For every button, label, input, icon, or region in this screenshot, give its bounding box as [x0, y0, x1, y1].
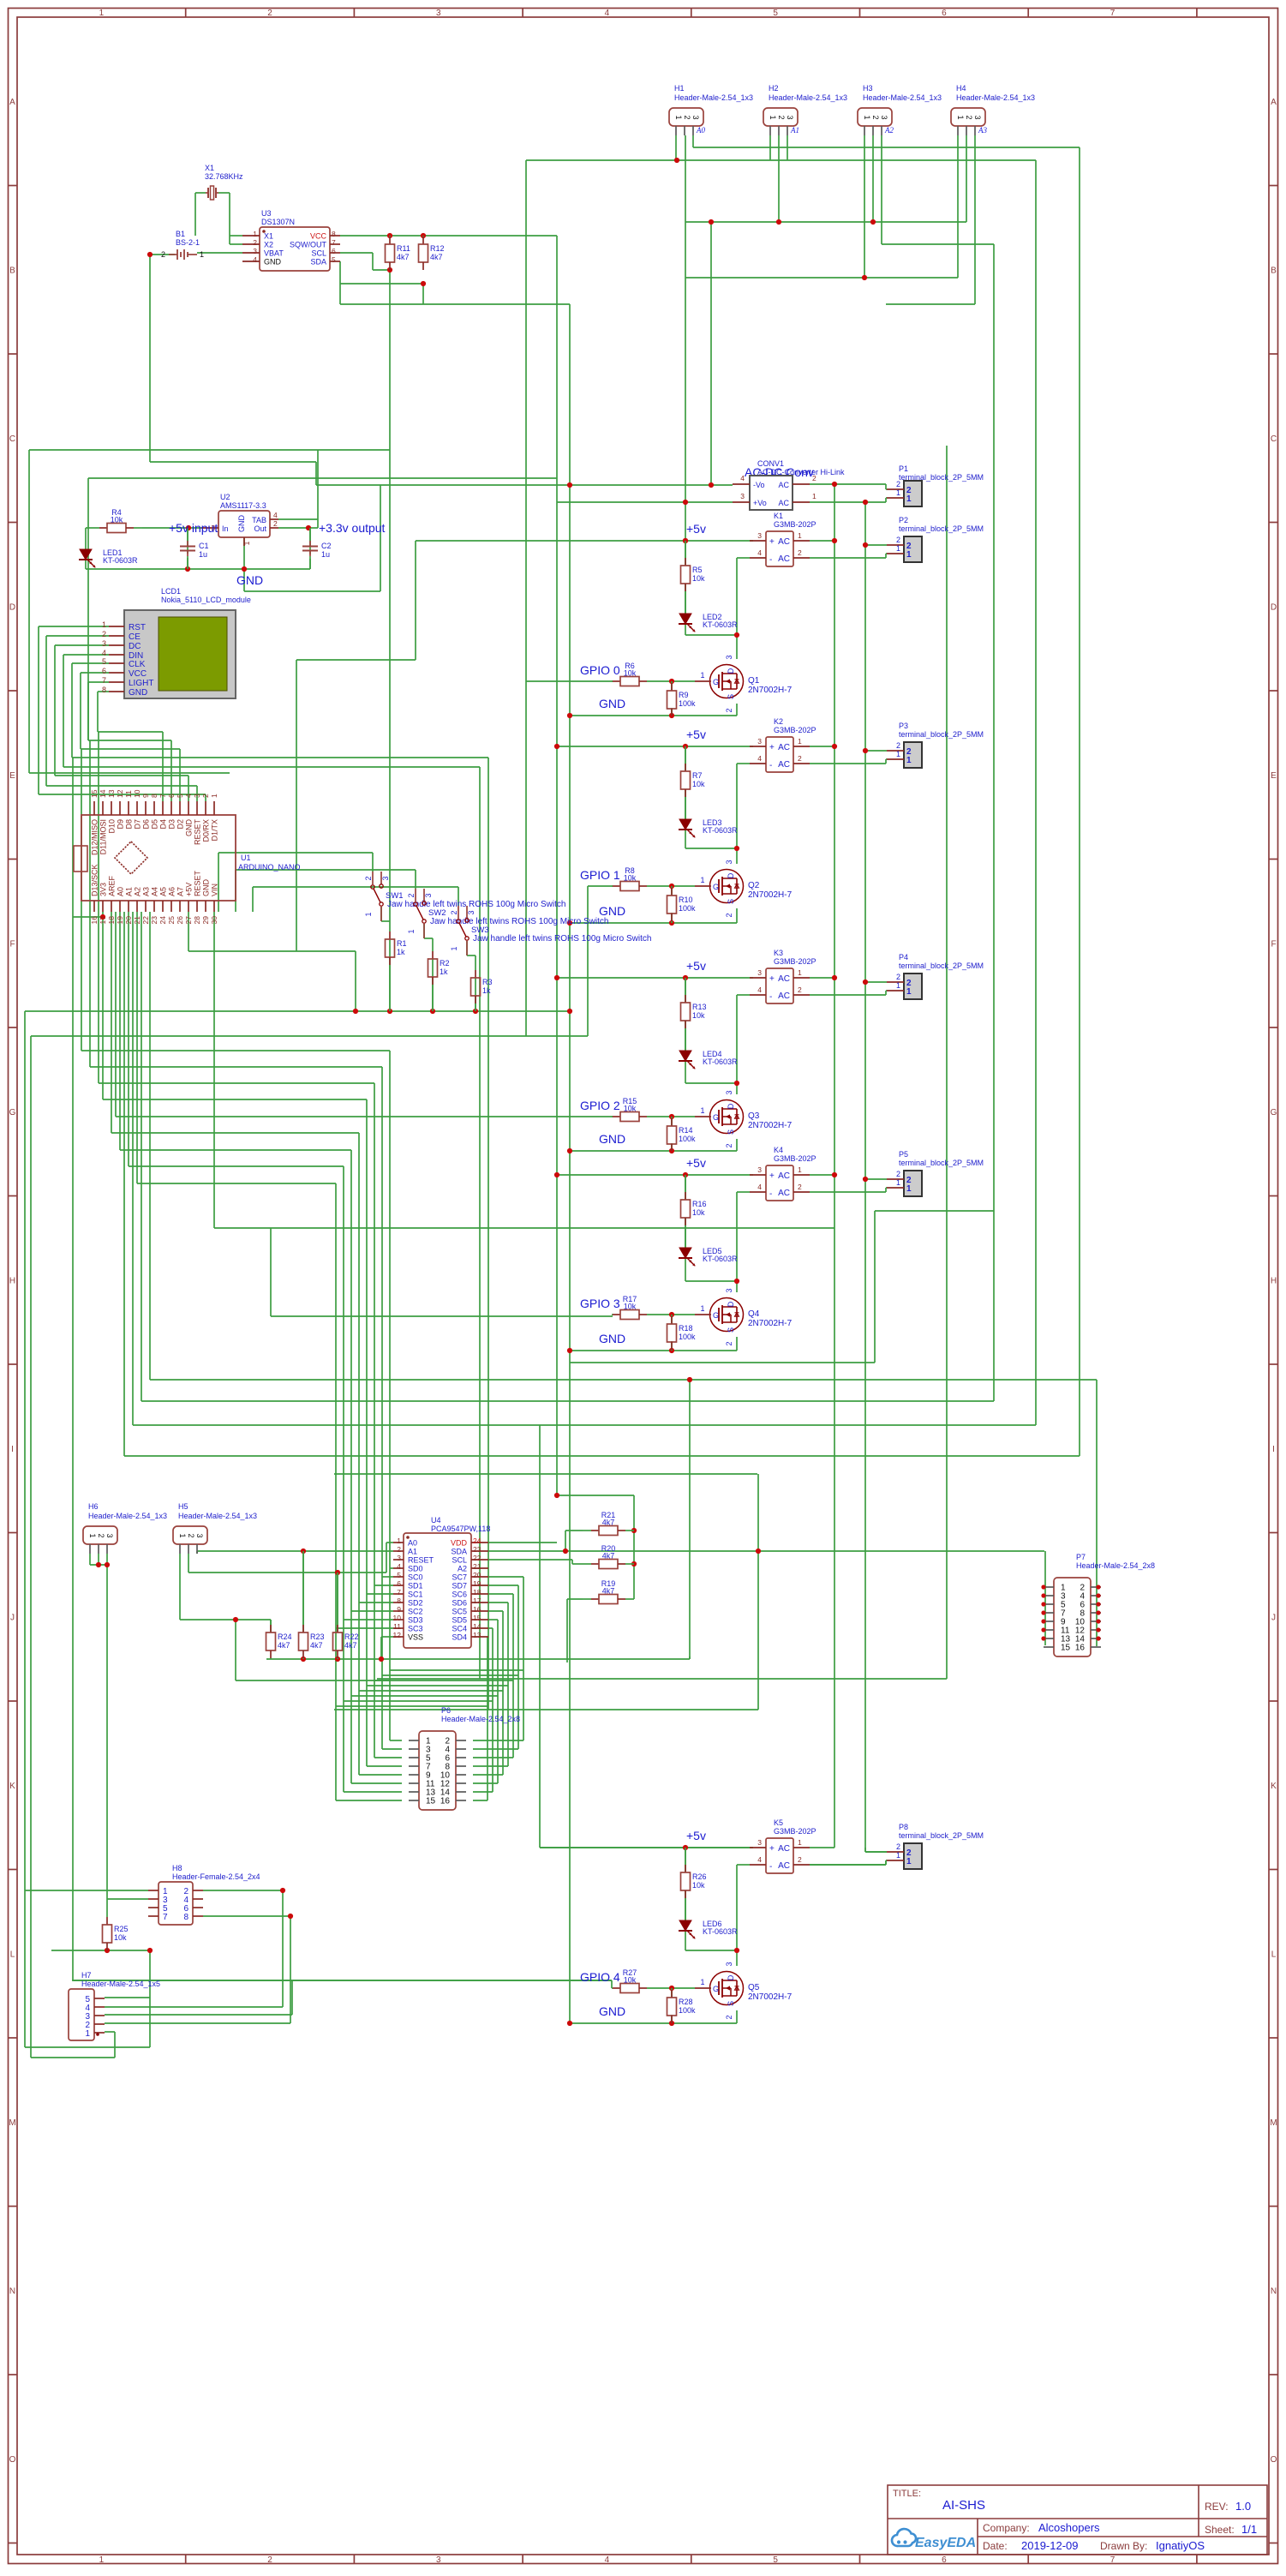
wire y=1141 x 650-879 [557, 977, 753, 979]
svg-text:Date:: Date: [983, 2540, 1008, 2552]
svg-text:2: 2 [187, 1533, 195, 1537]
wire y=1830 x 455-459 [390, 1567, 393, 1569]
wire y=2101 x 392-469 [336, 1800, 402, 1801]
wire x=165 y 1064-1635 [141, 912, 142, 1401]
wire x=240 y 927-935 [205, 794, 206, 801]
junction (800,2156) [683, 1845, 688, 1850]
svg-text:6: 6 [397, 1579, 401, 1588]
IC U1 ARDUINO_NANO [81, 815, 236, 901]
svg-text:3V3: 3V3 [99, 883, 108, 896]
junction (800,586) [683, 500, 688, 505]
svg-text:R25: R25 [114, 1925, 129, 1933]
svg-text:1: 1 [364, 912, 373, 916]
wire y=355 x 397-665 [340, 303, 570, 305]
wire y=1860 x 570-599 [488, 1593, 513, 1595]
junction (784,1303) [669, 1114, 674, 1119]
svg-text:2: 2 [725, 1143, 733, 1147]
svg-text:D8: D8 [125, 819, 134, 830]
svg-text:3: 3 [691, 115, 700, 119]
svg-text:5: 5 [773, 2555, 778, 2565]
wire x=362 y 652-664 [309, 559, 311, 569]
wire x=120 y 1064-1283 [102, 912, 104, 1099]
wire x=860 y 1060-1077 [736, 908, 738, 923]
svg-text:+: + [769, 743, 775, 752]
wire x=860 y 741-769 [736, 635, 738, 659]
wire y=1391 x 860-875 [737, 1191, 750, 1193]
wire y=259 x 800-1128 [685, 221, 966, 223]
svg-text:SC4: SC4 [452, 1625, 467, 1633]
wire x=175 y 297-539 [149, 255, 151, 462]
svg-text:1k: 1k [397, 948, 405, 956]
wire y=616 x 325-360 [278, 527, 308, 529]
junction (505,1180) [430, 1009, 435, 1014]
svg-text:SC2: SC2 [408, 1608, 423, 1616]
junction (555,1180) [473, 1009, 478, 1014]
wire x=94 y 785-874 [80, 673, 81, 749]
svg-text:1: 1 [798, 1165, 802, 1174]
svg-text:17: 17 [473, 1597, 482, 1605]
svg-text:D1/TX: D1/TX [211, 819, 219, 842]
wire x=220 y 1064-1110 [188, 912, 189, 951]
junction (1010,1146) [863, 979, 868, 985]
junction (330,2206) [280, 1888, 285, 1893]
svg-text:15: 15 [90, 789, 99, 798]
wire y=995 x 255-435 [218, 852, 373, 854]
wire y=2041 x 446-469 [382, 1748, 402, 1750]
junction (125,2276) [105, 1948, 110, 1953]
wire y=1376 x 1010-1035 [865, 1178, 887, 1180]
wire x=74 y 764-895 [63, 655, 64, 767]
svg-text:16: 16 [473, 1605, 482, 1614]
svg-text:1: 1 [906, 756, 912, 765]
junction (455,315) [387, 267, 392, 273]
svg-text:10k: 10k [692, 1881, 705, 1890]
svg-text:GPIO 0: GPIO 0 [580, 663, 620, 677]
svg-text:+3.3v output: +3.3v output [319, 521, 386, 535]
wire y=1890 x 570-581 [488, 1619, 498, 1620]
svg-text:H1: H1 [674, 84, 685, 93]
junction (1010,636) [863, 542, 868, 548]
wire y=1141 x 945-974 [810, 977, 834, 979]
svg-text:3: 3 [436, 9, 441, 18]
wire x=190 y 854-935 [162, 732, 164, 801]
svg-text:8: 8 [397, 1597, 401, 1605]
wire y=1745 x 650-740 [557, 1495, 634, 1496]
svg-text:10k: 10k [624, 1105, 637, 1113]
svg-text:7: 7 [332, 238, 336, 247]
svg-text:terminal_block_2P_5MM: terminal_block_2P_5MM [899, 1159, 984, 1167]
wire x=614 y 187-1209 [525, 160, 527, 1036]
svg-text:P6: P6 [441, 1706, 451, 1715]
wire y=1860 x 428-459 [367, 1593, 393, 1595]
svg-text:K4: K4 [774, 1146, 783, 1154]
svg-text:SCL: SCL [452, 1556, 467, 1565]
svg-text:2: 2 [97, 1533, 105, 1537]
wire x=219 y 616-646 [187, 528, 188, 554]
wire x=575 y 1900-2091 [492, 1628, 493, 1792]
svg-text:11: 11 [393, 1622, 401, 1631]
svg-text:4k7: 4k7 [278, 1641, 290, 1650]
wire y=355 x 1034-1138 [886, 303, 975, 305]
junction (974,631) [832, 538, 837, 543]
svg-text:SQW/OUT: SQW/OUT [290, 241, 326, 249]
svg-text:7: 7 [163, 1913, 168, 1922]
wire y=1850 x 570-605 [488, 1585, 518, 1586]
wire y=2071 x 552-587 [473, 1774, 503, 1776]
wire y=1840 x 446-459 [382, 1576, 393, 1578]
svg-text:C: C [1271, 434, 1277, 444]
junction (665,566) [567, 482, 572, 488]
svg-text:K2: K2 [774, 717, 783, 726]
wire y=331 x 397-494 [340, 283, 423, 285]
svg-text:29: 29 [201, 916, 210, 925]
svg-text:2: 2 [725, 1341, 733, 1345]
switch SW1 [372, 872, 374, 884]
wire x=444 y 566-690 [380, 485, 381, 591]
svg-text:A3: A3 [978, 126, 987, 135]
svg-text:-: - [769, 555, 772, 565]
wire y=876 x 1010-1035 [865, 750, 887, 752]
svg-text:1: 1 [906, 494, 912, 504]
svg-text:100k: 100k [679, 1333, 696, 1341]
junction (354,1810) [301, 1549, 306, 1554]
wire x=714 y 2311-2320 [611, 1980, 613, 1988]
svg-text:RST: RST [129, 623, 146, 632]
svg-text:+: + [769, 974, 775, 984]
svg-text:AC: AC [778, 554, 790, 564]
wire x=275 y 1015-1064 [235, 870, 236, 912]
wire y=616 x 166-235 [142, 527, 201, 529]
svg-text:R7: R7 [692, 771, 703, 780]
svg-text:4: 4 [605, 2555, 610, 2565]
wire y=631 x 485-879 [416, 540, 753, 542]
junction (784,1077) [669, 920, 674, 926]
svg-text:2: 2 [896, 741, 900, 750]
svg-text:4: 4 [397, 1562, 401, 1571]
svg-text:K5: K5 [774, 1818, 783, 1827]
wire y=297 x 175-204 [150, 254, 175, 255]
svg-text:14: 14 [99, 789, 107, 798]
svg-text:+5v input: +5v input [169, 521, 218, 535]
svg-text:G3MB-202P: G3MB-202P [774, 1827, 816, 1836]
svg-text:2N7002H-7: 2N7002H-7 [748, 1121, 793, 1130]
svg-text:EasyEDA: EasyEDA [915, 2536, 976, 2550]
wire x=1034 y 1156-1161 [885, 991, 887, 995]
wire x=330 y 2206-2342 [282, 1890, 284, 2007]
wire y=2081 x 410-469 [351, 1782, 402, 1784]
wire x=740 y 1745-1866 [633, 1495, 635, 1599]
wire x=346 y 770-1110 [296, 660, 297, 951]
wire x=105 y 864-1245 [89, 740, 91, 1067]
wire y=1342 x 140-410 [120, 1149, 351, 1151]
wire y=1810 x 570-1219 [488, 1550, 1044, 1552]
wire y=891 x 860-875 [737, 763, 750, 764]
wire x=446 y 1245-2041 [381, 1067, 383, 1749]
wire y=742 x 54-127 [46, 635, 109, 637]
wire y=2311 x 84-714 [72, 1980, 612, 1981]
svg-text:P8: P8 [899, 1823, 908, 1831]
wire x=369 y 539-566 [315, 462, 317, 485]
svg-text:L: L [1271, 1950, 1277, 1959]
junction (650,1745) [554, 1493, 559, 1498]
resistor R28 100k [671, 1988, 673, 1990]
svg-text:2: 2 [102, 630, 106, 638]
svg-text:2: 2 [450, 910, 458, 914]
wire y=275 x 268-283 [230, 235, 242, 237]
connector H1 Header-Male-2.54_1x3 [669, 108, 703, 126]
svg-text:R3: R3 [482, 978, 493, 986]
svg-text:27: 27 [184, 916, 193, 925]
wire y=2311 x 85-714 [73, 1980, 612, 1981]
transistor Q4 2N7002H-7 [710, 1298, 744, 1332]
svg-text:AI-SHS: AI-SHS [942, 2498, 985, 2513]
svg-text:A1: A1 [408, 1548, 417, 1556]
wire x=1034 y 1386-1391 [885, 1188, 887, 1192]
wire x=599 y 1860-2051 [512, 1594, 514, 1758]
wire x=64 y 753-905 [54, 645, 56, 776]
wire x=630 y 1663-2156 [539, 1425, 541, 1848]
wire y=1035 x 295-535 [253, 886, 458, 888]
connector H3 Header-Male-2.54_1x3 [858, 108, 892, 126]
svg-text:7: 7 [1110, 9, 1116, 18]
svg-text:Header-Male-2.54_1x3: Header-Male-2.54_1x3 [956, 93, 1035, 102]
svg-text:D0/RX: D0/RX [202, 819, 211, 842]
svg-text:SD0: SD0 [408, 1565, 423, 1573]
svg-text:AC: AC [778, 991, 790, 1001]
svg-text:Jaw handle left twins ROHS 100: Jaw handle left twins ROHS 100g Micro Sw… [473, 934, 651, 944]
resistor R12 4k7 [422, 236, 424, 237]
wire y=2176 x 945-1034 [810, 1864, 886, 1866]
svg-text:SC5: SC5 [452, 1608, 467, 1616]
wire x=455 y 1096-1180 [389, 939, 391, 1011]
svg-text:1: 1 [896, 1178, 900, 1187]
wire x=660 y 1786-1810 [565, 1531, 566, 1551]
svg-text:terminal_block_2P_5MM: terminal_block_2P_5MM [899, 1831, 984, 1840]
svg-text:2: 2 [777, 115, 786, 119]
svg-text:15: 15 [1061, 1644, 1071, 1653]
wire x=219 y 651-664 [187, 558, 188, 569]
svg-text:A3: A3 [142, 887, 151, 896]
svg-text:KT-0603R: KT-0603R [103, 556, 138, 565]
wire x=100 y 653-664 [85, 560, 87, 569]
svg-text:+5v: +5v [686, 1829, 706, 1842]
svg-text:R13: R13 [692, 1003, 707, 1011]
wire y=275 x 397-650 [340, 235, 557, 237]
wire x=295 y 1035-1064 [252, 887, 254, 912]
svg-text:23: 23 [150, 916, 159, 925]
svg-text:SD7: SD7 [452, 1582, 467, 1591]
svg-text:2: 2 [896, 480, 900, 488]
wire x=784 y 795-806 [671, 681, 673, 691]
wire x=860 y 2346-2361 [736, 2010, 738, 2023]
wire x=1105 y 520-1959 [946, 446, 948, 1679]
junction (650,871) [554, 744, 559, 749]
wire y=2081 x 552-581 [473, 1782, 498, 1784]
wire y=2276 x 60-175 [51, 1950, 150, 1951]
junction (360,616) [306, 525, 311, 530]
wire x=394 y 1835-1905 [337, 1573, 338, 1632]
junction (800,1141) [683, 975, 688, 980]
svg-text:GPIO 4: GPIO 4 [580, 1970, 620, 1984]
wire x=860 y 891-990 [736, 764, 738, 848]
wire y=2351 x 122-341 [105, 2014, 292, 2016]
svg-text:G3MB-202P: G3MB-202P [774, 520, 816, 529]
svg-text:A0: A0 [117, 887, 125, 896]
svg-text:Q1: Q1 [748, 676, 760, 686]
svg-text:C: C [9, 434, 15, 444]
wire y=539 x 175-369 [150, 461, 316, 463]
svg-text:D: D [9, 602, 15, 612]
junction (219,664) [185, 566, 190, 572]
wire x=784 y 1303-1314 [671, 1117, 673, 1126]
wire x=250 y 1064-1433 [213, 912, 215, 1228]
wire x=155 y 1064-1663 [132, 912, 134, 1425]
wire x=397 y 305-355 [339, 261, 341, 304]
wire x=103 y 796-864 [87, 682, 89, 740]
svg-text:GND: GND [129, 688, 147, 698]
svg-text:B1: B1 [176, 230, 185, 238]
svg-text:3: 3 [725, 1288, 733, 1292]
svg-text:1: 1 [210, 794, 218, 798]
wire y=1870 x 570-593 [488, 1602, 508, 1603]
svg-text:+5v: +5v [686, 522, 706, 536]
wire y=2176 x 945-1034 [810, 1864, 886, 1866]
wire x=485 y 1015-1037 [415, 870, 416, 889]
transistor Q5 2N7002H-7 [710, 1972, 744, 2005]
resistor R19 4k7 [583, 1598, 591, 1600]
svg-text:21: 21 [133, 916, 141, 925]
svg-text:4: 4 [605, 9, 610, 18]
wire x=145 y 1064-1699 [123, 912, 125, 1456]
junction (220,616) [186, 525, 191, 530]
svg-text:3: 3 [102, 639, 106, 648]
svg-text:Header-Female-2.54_2x4: Header-Female-2.54_2x4 [172, 1872, 260, 1881]
svg-text:VBAT: VBAT [264, 249, 284, 258]
svg-text:-: - [769, 1862, 772, 1872]
wire x=800 y 728-741 [685, 624, 686, 635]
wire x=860 y 1329-1343 [736, 1139, 738, 1151]
wire x=105 y 1813-1826 [89, 1554, 91, 1565]
svg-text:RESET: RESET [194, 870, 202, 896]
svg-text:1: 1 [99, 2555, 105, 2565]
wire y=2091 x 552-575 [473, 1791, 493, 1793]
svg-text:D: D [727, 1301, 735, 1307]
svg-text:AMS1117-3.3: AMS1117-3.3 [220, 501, 266, 510]
svg-text:D9: D9 [117, 819, 125, 830]
svg-text:C1: C1 [199, 542, 209, 550]
svg-text:10k: 10k [692, 1208, 705, 1217]
svg-text:SC3: SC3 [408, 1625, 423, 1633]
svg-text:8: 8 [102, 686, 106, 694]
wire x=95 y 874-1226 [81, 749, 82, 1051]
svg-text:U2: U2 [220, 493, 230, 501]
wire x=1138 y 158-355 [974, 135, 976, 304]
svg-text:Header-Male-2.54_2x8: Header-Male-2.54_2x8 [441, 1715, 520, 1723]
wire x=885 y 1720-1995 [757, 1474, 759, 1710]
wire y=1835 x 220-451 [188, 1572, 386, 1573]
wire y=1900 x 570-575 [488, 1627, 493, 1629]
wire y=1226 x 95-455 [81, 1050, 390, 1051]
wire x=1034 y 2171-2176 [885, 1860, 887, 1865]
svg-text:H2: H2 [769, 84, 779, 93]
junction (445,1936) [379, 1656, 384, 1662]
wire y=1890 x 210-316 [180, 1619, 271, 1620]
wire y=1303 x 755-811 [647, 1116, 695, 1117]
wire y=1720 x 390-884 [334, 1473, 757, 1475]
junction (1010,586) [863, 500, 868, 505]
svg-text:3: 3 [381, 876, 390, 880]
svg-text:R5: R5 [692, 566, 703, 574]
svg-text:DC: DC [129, 642, 141, 651]
svg-text:C2: C2 [321, 542, 332, 550]
svg-text:10k: 10k [114, 1933, 127, 1942]
wire x=445 y 1910-1936 [380, 1637, 382, 1659]
svg-text:5: 5 [773, 9, 778, 18]
wire x=451 y 1800-1835 [386, 1543, 387, 1573]
svg-text:2: 2 [725, 708, 733, 712]
wire x=569 y 1910-2101 [487, 1637, 488, 1800]
wire x=800 y 1421-1456 [685, 1218, 686, 1248]
resistor R7 10k [685, 746, 686, 764]
wire y=1283 x 120-428 [103, 1099, 367, 1100]
junction (394,1835) [335, 1570, 340, 1575]
wire y=2171 x 1034-1035 [886, 1860, 887, 1861]
svg-text:R22: R22 [344, 1632, 359, 1641]
wire x=555 y 1141-1180 [475, 978, 476, 1011]
svg-text:SDA: SDA [310, 258, 326, 267]
svg-text:-: - [769, 992, 772, 1002]
svg-text:R9: R9 [679, 691, 689, 699]
svg-text:terminal_block_2P_5MM: terminal_block_2P_5MM [899, 730, 984, 739]
wire y=774 x 84-127 [72, 662, 109, 664]
wire y=1381 x 160-392 [137, 1183, 336, 1184]
svg-text:SD6: SD6 [452, 1599, 467, 1608]
svg-text:1: 1 [906, 550, 912, 560]
svg-text:2: 2 [253, 238, 257, 247]
svg-text:SD1: SD1 [408, 1582, 423, 1591]
svg-text:4: 4 [102, 649, 106, 657]
junction (665,1576) [567, 1348, 572, 1353]
svg-text:10: 10 [133, 789, 141, 798]
resistor R20 4k7 [583, 1563, 591, 1565]
wire x=860 y 651-741 [736, 558, 738, 635]
wire y=2236 x 237-339 [203, 1915, 290, 1917]
wire y=874 x 94-210 [81, 748, 180, 750]
svg-text:A7: A7 [176, 887, 185, 896]
svg-text:2: 2 [798, 1183, 802, 1191]
svg-text:20: 20 [473, 1571, 482, 1579]
wire y=2156 x 945-974 [810, 1847, 834, 1848]
svg-text:G3MB-202P: G3MB-202P [774, 1154, 816, 1163]
junction (909,259) [776, 219, 781, 225]
wire y=285 x 268-283 [230, 243, 242, 245]
svg-text:22: 22 [473, 1554, 482, 1562]
svg-text:+5v: +5v [686, 959, 706, 973]
svg-text:3: 3 [725, 655, 733, 659]
wire y=1635 x 165-1160 [141, 1400, 994, 1402]
resistor R13 10k [685, 978, 686, 995]
junction (805,1610) [687, 1377, 692, 1382]
svg-text:+: + [769, 1844, 775, 1854]
wire y=2041 x 552-605 [473, 1748, 518, 1750]
svg-text:D6: D6 [142, 819, 151, 830]
svg-text:SC1: SC1 [408, 1591, 423, 1599]
svg-text:15: 15 [473, 1614, 482, 1622]
wire y=1900 x 392-459 [336, 1627, 393, 1629]
wire x=800 y 1468-1495 [685, 1258, 686, 1281]
junction (860,990) [734, 846, 739, 851]
svg-text:U3: U3 [261, 209, 272, 218]
